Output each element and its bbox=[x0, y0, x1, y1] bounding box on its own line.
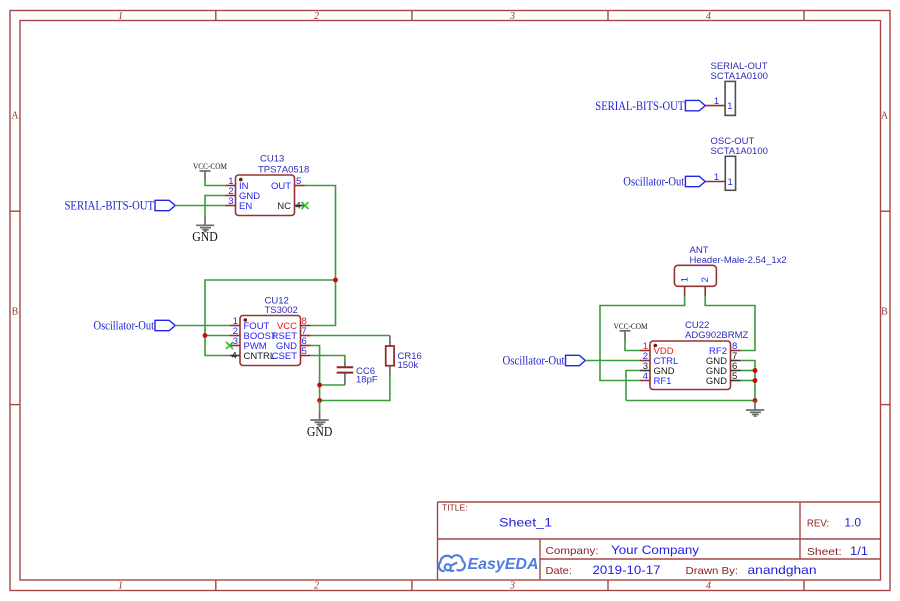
node Oscillator-Out net flag (CU22) bbox=[503, 353, 586, 368]
svg-text:5: 5 bbox=[296, 176, 301, 187]
svg-text:Oscillator-Out: Oscillator-Out bbox=[94, 318, 155, 333]
pin 5 CU12 CSET bbox=[272, 346, 311, 362]
svg-text:ADG902BRMZ: ADG902BRMZ bbox=[685, 330, 749, 341]
pin 5 CU13 OUT bbox=[271, 176, 305, 192]
svg-text:TITLE:: TITLE: bbox=[442, 503, 468, 513]
svg-text:4: 4 bbox=[232, 350, 237, 361]
pin 2 ANT bbox=[700, 277, 711, 296]
wire CU12 pin6 GND down bbox=[311, 346, 320, 386]
svg-text:5: 5 bbox=[732, 371, 737, 382]
pin 1 CU12 FOUT bbox=[230, 316, 270, 332]
svg-text:Oscillator-Out: Oscillator-Out bbox=[623, 174, 684, 189]
svg-text:1: 1 bbox=[714, 96, 719, 107]
pin 1 OSC-OUT bbox=[705, 172, 725, 183]
connector ANT Header-Male-2.54_1x2 bbox=[674, 245, 786, 286]
wire CU22 pin5 to rail bbox=[741, 380, 756, 382]
node SERIAL-BITS-OUT net flag bbox=[65, 198, 176, 213]
ground GND symbol below CU12 bbox=[307, 411, 333, 439]
power VCC-COM symbol near CU13 bbox=[193, 161, 227, 180]
svg-text:1: 1 bbox=[727, 177, 732, 188]
svg-text:VCC-COM: VCC-COM bbox=[193, 161, 227, 171]
svg-text:Drawn By:: Drawn By: bbox=[686, 565, 739, 577]
svg-text:Your Company: Your Company bbox=[611, 543, 699, 557]
svg-text:GND: GND bbox=[192, 229, 218, 244]
pin 4 CU22 RF1 bbox=[640, 371, 671, 387]
pin 7 CU12 RSET bbox=[272, 326, 311, 342]
wire Oscillator-Out to CU22 CTRL bbox=[586, 360, 641, 362]
pin 2 CU22 CTRL bbox=[640, 351, 678, 367]
svg-text:4: 4 bbox=[706, 11, 711, 22]
wire CU12 pin7 RSET to resistor bbox=[311, 335, 390, 337]
wire capacitor bottom to GND rail bbox=[320, 384, 345, 386]
pin 1 CU22 VDD bbox=[640, 341, 674, 357]
junction resistor to rail bbox=[317, 398, 322, 403]
svg-text:OUT: OUT bbox=[271, 181, 291, 192]
svg-text:1: 1 bbox=[118, 581, 123, 592]
svg-text:Oscillator-Out: Oscillator-Out bbox=[503, 353, 565, 368]
pin 1 CU13 IN bbox=[226, 176, 249, 192]
svg-text:1: 1 bbox=[714, 172, 719, 183]
svg-text:3: 3 bbox=[509, 581, 515, 592]
junction bottom rail bbox=[753, 398, 758, 403]
svg-text:Company:: Company: bbox=[546, 545, 599, 557]
svg-text:VCC-COM: VCC-COM bbox=[614, 321, 648, 331]
pin 5 CU22 GND bbox=[706, 371, 741, 387]
wire GND rail segment bbox=[319, 385, 321, 401]
wire CU13 OUT down to junction bbox=[305, 186, 336, 281]
svg-text:Sheet_1: Sheet_1 bbox=[499, 516, 552, 530]
svg-text:Header-Male-2.54_1x2: Header-Male-2.54_1x2 bbox=[690, 255, 787, 266]
svg-text:TPS7A0518: TPS7A0518 bbox=[258, 165, 309, 176]
IC CU22 RF switch ADG902BRMZ bbox=[650, 320, 749, 390]
wire CU22 pin6 to rail bbox=[741, 370, 756, 372]
pin 4 CU12 CNTRL bbox=[230, 350, 275, 362]
resistor CR16 150k bbox=[386, 336, 422, 376]
capacitor CC6 18pF bbox=[337, 362, 378, 386]
wire VCC-COM to CU13 pin1 bbox=[205, 180, 226, 186]
svg-text:CNTRL: CNTRL bbox=[244, 351, 276, 362]
pin 3 CU13 EN bbox=[226, 196, 253, 212]
svg-text:1/1: 1/1 bbox=[850, 544, 868, 558]
wire ANT pin1 to CU22 RF1 bbox=[600, 296, 685, 381]
ground GND symbol below CU13 bbox=[192, 216, 218, 244]
svg-text:A: A bbox=[881, 111, 889, 122]
svg-text:5: 5 bbox=[302, 346, 307, 357]
wire ANT pin2 to CU22 RF2 bbox=[705, 296, 755, 351]
pin 6 CU22 GND bbox=[706, 361, 741, 377]
svg-text:CU13: CU13 bbox=[260, 154, 284, 165]
wire VCC-COM to CU22 VDD bbox=[625, 341, 640, 351]
connector SERIAL-OUT SCTA1A0100 bbox=[711, 61, 768, 115]
pin 3 CU12 PWM no-connect bbox=[226, 336, 267, 352]
wire junction down to CU12 VCC pin8 bbox=[311, 280, 336, 326]
svg-text:1.0: 1.0 bbox=[844, 516, 861, 530]
svg-text:4: 4 bbox=[296, 200, 301, 211]
node Oscillator-Out net flag (left) bbox=[94, 318, 176, 333]
svg-text:NC: NC bbox=[277, 201, 291, 212]
wire CU22 pin7 to right rail bbox=[741, 361, 756, 401]
pin 6 CU12 GND bbox=[276, 336, 311, 352]
power VCC-COM symbol near CU22 bbox=[614, 321, 648, 341]
svg-text:GND: GND bbox=[307, 424, 333, 439]
wire branch to CU12 pin2 BOOST bbox=[205, 335, 230, 337]
svg-text:CSET: CSET bbox=[272, 351, 298, 362]
pin 1 SERIAL-OUT bbox=[705, 96, 725, 107]
svg-text:2: 2 bbox=[700, 277, 711, 282]
svg-text:2: 2 bbox=[314, 581, 319, 592]
wire CU13 pin2 to GND bbox=[205, 196, 226, 216]
wire CU12 pin5 CSET to capacitor bbox=[311, 356, 345, 362]
svg-text:RF1: RF1 bbox=[654, 376, 672, 387]
svg-text:REV:: REV: bbox=[807, 518, 829, 530]
junction pin5 rail bbox=[753, 378, 758, 383]
svg-text:A: A bbox=[11, 111, 19, 122]
svg-text:SERIAL-BITS-OUT: SERIAL-BITS-OUT bbox=[65, 198, 155, 213]
node SERIAL-BITS-OUT net flag (right) bbox=[595, 98, 705, 113]
pin 7 CU22 GND bbox=[706, 351, 741, 367]
wire Oscillator-Out to CU12 pin1 FOUT bbox=[175, 325, 230, 327]
svg-text:B: B bbox=[881, 307, 888, 318]
svg-text:3: 3 bbox=[509, 11, 515, 22]
wire CU22 pin3 GND to rail bbox=[626, 371, 640, 401]
svg-text:SCTA1A0100: SCTA1A0100 bbox=[711, 146, 768, 157]
pin 1 ANT bbox=[680, 277, 691, 296]
svg-text:4: 4 bbox=[643, 371, 648, 382]
wire SERIAL-BITS-OUT to CU13 pin3 EN bbox=[175, 205, 225, 207]
svg-text:1: 1 bbox=[118, 11, 123, 22]
svg-text:3: 3 bbox=[228, 196, 233, 207]
wire junction left and down to CU12 bbox=[205, 280, 336, 336]
pin 3 CU22 GND bbox=[640, 361, 675, 377]
IC CU12 oscillator TS3002 bbox=[240, 296, 301, 366]
pin 8 CU22 RF2 bbox=[709, 341, 740, 357]
svg-text:2: 2 bbox=[314, 11, 319, 22]
svg-text:4: 4 bbox=[706, 581, 711, 592]
svg-text:EN: EN bbox=[239, 201, 252, 212]
svg-text:TS3002: TS3002 bbox=[265, 305, 298, 316]
pin 4 CU13 NC no-connect bbox=[277, 200, 308, 212]
svg-text:anandghan: anandghan bbox=[748, 563, 817, 577]
pin 8 CU12 VCC bbox=[277, 316, 311, 332]
svg-text:1: 1 bbox=[727, 101, 732, 112]
wire GND bottom rail bbox=[626, 400, 755, 402]
svg-text:GND: GND bbox=[706, 376, 727, 387]
junction cap to rail bbox=[317, 383, 322, 388]
svg-text:Date:: Date: bbox=[546, 565, 572, 577]
svg-text:150k: 150k bbox=[398, 360, 419, 371]
junction at OUT net bbox=[333, 278, 338, 283]
wire resistor bottom to GND rail bbox=[320, 375, 390, 400]
wire down to CU12 pin4 CNTRL bbox=[205, 336, 230, 356]
svg-text:EasyEDA: EasyEDA bbox=[468, 556, 539, 573]
pin 2 CU12 BOOST bbox=[230, 326, 277, 342]
junction pin6 rail bbox=[753, 368, 758, 373]
svg-text:2019-10-17: 2019-10-17 bbox=[593, 563, 661, 577]
svg-text:Sheet:: Sheet: bbox=[807, 546, 842, 558]
title block (decorative) bbox=[438, 502, 881, 580]
svg-text:1: 1 bbox=[680, 277, 691, 282]
pin 2 CU13 GND bbox=[226, 186, 261, 202]
svg-text:18pF: 18pF bbox=[356, 374, 378, 385]
junction at BOOST branch bbox=[203, 333, 208, 338]
svg-text:SERIAL-BITS-OUT: SERIAL-BITS-OUT bbox=[595, 98, 684, 113]
IC CU13 regulator TPS7A0518 bbox=[236, 154, 310, 216]
wire GND rail to ground bbox=[319, 401, 321, 411]
node Oscillator-Out net flag (right top) bbox=[623, 174, 705, 189]
svg-text:3: 3 bbox=[233, 336, 238, 347]
svg-text:SCTA1A0100: SCTA1A0100 bbox=[711, 71, 768, 82]
connector OSC-OUT SCTA1A0100 bbox=[711, 136, 768, 190]
svg-text:B: B bbox=[12, 307, 19, 318]
ground symbol below CU22 bbox=[746, 401, 764, 417]
